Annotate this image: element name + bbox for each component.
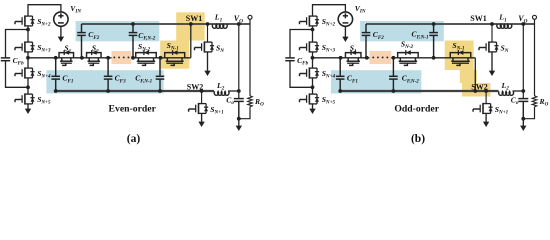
highlight orange dotted continuation box (a) <box>112 51 132 64</box>
wire top rail (a) <box>82 23 251 25</box>
node ladder x=56 (b) <box>339 56 343 60</box>
resistor R_O (b) <box>532 96 537 107</box>
node ladder x=133 (a) <box>131 56 135 60</box>
wire output terminal stub (a) <box>249 20 251 24</box>
transistor S_N+4 (a) <box>15 67 35 78</box>
wire C_Fb top bracket (a) <box>6 30 29 58</box>
wire Ro bottom (a) <box>239 107 250 119</box>
wire outer output rail (b) <box>534 24 536 96</box>
transistor S_N+1 (a) <box>189 103 209 114</box>
inductor L1 (b) <box>497 24 512 28</box>
highlight yellow resonant switch path (b) <box>445 41 474 71</box>
capacitor C_F,N-2 (b) <box>389 58 398 91</box>
wire S_N drain (b) <box>491 24 493 42</box>
orange continuation dots (a) <box>113 56 115 58</box>
switch S_N-2 (a) <box>136 50 157 65</box>
ground below S_N (a) <box>204 52 210 76</box>
wire Ro bottom (b) <box>523 107 534 119</box>
resistor R_O (a) <box>248 96 253 107</box>
ground output (b) <box>520 119 526 131</box>
node L2 out (a) <box>237 89 241 93</box>
capacitor C_F3 (a) <box>104 58 113 91</box>
node V_O (b) <box>521 22 525 26</box>
node S_N-1 drop (b) <box>473 89 477 93</box>
ground below S_N+1 (a) <box>198 113 204 127</box>
highlight orange dotted continuation box (b) <box>369 51 391 64</box>
capacitor C_F1 (a) <box>51 58 60 91</box>
voltage source V_IN (b) <box>338 12 352 26</box>
node ladder x=109 (b) <box>392 56 396 60</box>
wire C_Fb top bracket (b) <box>290 30 313 58</box>
wire bottom rail (b) <box>340 90 498 92</box>
capacitor C_o (b) <box>518 99 528 119</box>
transistor S_N+2 (b) <box>300 15 320 26</box>
node S_N drain tee (a) <box>206 22 210 26</box>
ground below S_N+5 (b) <box>309 104 315 114</box>
inductor L2 (b) <box>499 91 514 95</box>
node bottom rail C_F,N-1 (a) <box>158 89 162 93</box>
transistor S_N+4 (b) <box>300 67 320 78</box>
node ladder x=160 (a) <box>159 56 163 60</box>
inductor L2 (a) <box>214 91 229 95</box>
node output ground (a) <box>237 117 241 121</box>
wire mid ladder rail (a) <box>28 57 112 59</box>
node ladder x=108 (a) <box>106 56 110 60</box>
svg-text:(b): (b) <box>411 133 425 145</box>
ground below S_N (b) <box>489 52 495 76</box>
node ladder x=56 (a) <box>54 56 58 60</box>
switch S_N-1 (b) <box>450 50 471 65</box>
node V_O (a) <box>237 22 241 26</box>
highlight cyan top flying-cap region (b) <box>360 21 444 41</box>
node bottom rail C_F1 (a) <box>54 89 58 93</box>
highlight yellow resonant switch path (a) <box>176 12 205 40</box>
node top rail cap2 (b) <box>432 22 436 26</box>
node S_N+2/S_N+3 (a) <box>26 28 30 32</box>
capacitor C_F,N-1 (a) <box>156 58 165 91</box>
wire outer output rail (a) <box>249 24 251 96</box>
orange continuation dots (b) <box>372 56 374 58</box>
wire S_N+1 drain (a) <box>201 91 203 104</box>
capacitor C_F2 (b) <box>362 24 371 58</box>
node SW2 junction (a) <box>200 89 204 93</box>
node output ground (b) <box>521 117 525 121</box>
wire bottom rail right (b) <box>513 90 524 92</box>
wire mid ladder rail (b) <box>313 57 370 59</box>
ground below V_IN (b) <box>342 26 348 42</box>
highlight cyan bottom flying-cap region (a) <box>46 70 163 93</box>
node S_N drain tee (b) <box>490 22 494 26</box>
switch S1 (a) <box>59 50 74 65</box>
wire chain rail segments (b) <box>312 26 314 43</box>
inductor L1 (a) <box>212 24 227 28</box>
node bottom rail C_F,N-2 (b) <box>392 89 396 93</box>
node SW1 junction (a) <box>189 22 193 26</box>
svg-text:(a): (a) <box>127 133 141 145</box>
switch S1 (b) <box>345 50 361 65</box>
voltage source V_IN (a) <box>54 12 68 26</box>
wire S_N drain (a) <box>207 24 209 42</box>
node S_N+2/S_N+3 (b) <box>311 28 315 32</box>
capacitor C_Fb (a) <box>1 58 10 61</box>
wire bottom rail right (a) <box>228 90 239 92</box>
node ladder x=82 (a) <box>80 56 84 60</box>
wire top-left from S_N+2 drain to V_IN (a) <box>28 5 61 17</box>
transistor S_N+1 (b) <box>473 103 493 114</box>
transistor S_N (b) <box>479 41 499 52</box>
node top rail cap2 (a) <box>131 22 135 26</box>
capacitor C_F1 (b) <box>336 58 345 91</box>
node bottom rail C_F1 (b) <box>338 89 342 93</box>
capacitor C_o (a) <box>234 99 244 119</box>
ground output (a) <box>236 119 242 131</box>
node L2 out (b) <box>521 89 525 93</box>
capacitor C_Fb (b) <box>285 58 294 61</box>
node S_N+3/S_N+4 mid-rail tap (b) <box>311 56 315 60</box>
node S_N+4/S_N+5 (b) <box>311 85 315 89</box>
svg-text:Even-order: Even-order <box>109 104 157 115</box>
transistor S_N (a) <box>195 41 215 52</box>
transistor S_N+2 (a) <box>15 15 35 26</box>
wire inner output rail (a) <box>238 24 240 99</box>
wire C_Fb bottom bracket (b) <box>290 61 313 88</box>
wire bottom rail (a) <box>56 90 214 92</box>
terminal V_O (b) <box>533 15 537 19</box>
switch S_N-2 (b) <box>398 50 419 65</box>
wire S_N+1 drain (b) <box>485 91 487 104</box>
node ladder x=82 (b) <box>365 56 369 60</box>
switch S_N-1 (a) <box>165 50 185 65</box>
wire top rail (b) <box>366 23 535 25</box>
capacitor C_F,N-1 top (b) <box>429 24 438 58</box>
highlight cyan bottom flying-cap region (b) <box>331 70 422 93</box>
svg-text:Odd-order: Odd-order <box>394 104 439 115</box>
svg-text:SW1: SW1 <box>470 14 486 23</box>
ground below V_IN (a) <box>58 26 64 42</box>
wire output terminal stub (b) <box>534 20 536 24</box>
wire top-left from S_N+2 drain to V_IN (b) <box>313 5 346 17</box>
wire inner output rail (b) <box>522 24 524 99</box>
highlight cyan top flying-cap region (a) <box>76 21 160 41</box>
wire S_N-1 to SW2 dropper (b) <box>474 58 476 91</box>
transistor S_N+3 (b) <box>300 41 320 52</box>
wire chain rail segments (a) <box>27 26 29 43</box>
svg-text:SW1: SW1 <box>186 14 202 23</box>
node SW2 junction (b) <box>484 89 488 93</box>
capacitor C_F2 (a) <box>77 24 86 58</box>
transistor S_N+3 (a) <box>15 41 35 52</box>
ground below S_N+5 (a) <box>25 104 31 114</box>
node bottom rail C_F3 (a) <box>106 89 110 93</box>
node S_N+3/S_N+4 mid-rail tap (a) <box>26 56 30 60</box>
node ladder x=149 (b) <box>432 56 436 60</box>
transistor S_N+5 (b) <box>300 93 320 104</box>
node S_N+4/S_N+5 (a) <box>26 85 30 89</box>
capacitor C_F,N-2 top (a) <box>129 24 138 58</box>
switch S2 (a) <box>87 50 102 65</box>
transistor S_N+5 (a) <box>15 93 35 104</box>
terminal V_O (a) <box>248 15 252 19</box>
ground below S_N+1 (b) <box>483 113 489 127</box>
wire C_Fb bottom bracket (a) <box>6 61 29 88</box>
wire S_N-1 to SW1 riser (a) <box>190 24 192 58</box>
